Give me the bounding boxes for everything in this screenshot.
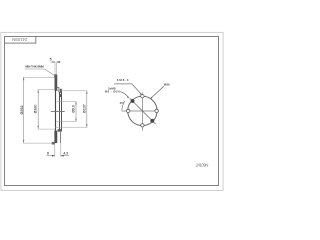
thickness arrow left [52, 61, 55, 63]
right dim arrows [86, 91, 88, 94]
mini arrow mark lower [60, 94, 62, 97]
OD dim line [23, 77, 25, 143]
hole top [141, 95, 144, 98]
svg-text:5: 5 [50, 57, 52, 61]
dim2 line [37, 90, 39, 129]
thickness dim line right [57, 61, 61, 63]
hole bottom [141, 124, 144, 127]
leader top horizontal [114, 83, 132, 85]
svg-text:Ø252: Ø252 [20, 105, 24, 114]
svg-text:MIN THK 8MM: MIN THK 8MM [25, 65, 44, 69]
bottom dim arrow right [61, 155, 64, 157]
svg-text:4.3: 4.3 [63, 152, 68, 156]
filled hole upper-left [131, 99, 135, 103]
diagonal centerline [130, 98, 156, 124]
horizontal centerline [122, 110, 159, 112]
OD dim arrows [23, 77, 25, 80]
svg-text:6M8.3: 6M8.3 [117, 78, 129, 82]
svg-text:Ø9.0: Ø9.0 [71, 105, 75, 113]
bottom dim ext right [60, 143, 62, 157]
drawing frame [5, 37, 219, 186]
note underline [25, 68, 45, 70]
OD ext top [23, 76, 55, 78]
leader O80 arrowhead [150, 97, 152, 99]
centerline [51, 110, 65, 112]
bottom dim line left [47, 155, 55, 157]
bottom lip [52, 142, 55, 145]
inner dim line [75, 102, 77, 122]
dim2 ext bottom [38, 128, 56, 130]
OD ext bottom [23, 142, 52, 144]
hat step top horizontal [57, 87, 59, 89]
dim2 arrows [37, 90, 39, 93]
thickness dim line left [50, 61, 55, 63]
svg-text:24109N: 24109N [196, 162, 209, 167]
hole right [155, 109, 158, 112]
right ext top [57, 90, 87, 92]
angle arc [122, 101, 125, 110]
leader curved to filled hole [120, 92, 128, 98]
sheet outer edge [1, 32, 223, 190]
inner ext bottom [56, 120, 76, 122]
svg-text:Ø8→Ø20: Ø8→Ø20 [105, 90, 121, 94]
svg-text:Ø80: Ø80 [164, 83, 170, 87]
thickness arrow right [57, 61, 60, 63]
leader top arrowhead [140, 93, 142, 95]
hat wall inner [61, 92, 63, 130]
hat bottom vertical [60, 130, 62, 143]
svg-text:Ø137: Ø137 [83, 104, 87, 113]
top friction ring section [55, 75, 57, 90]
right dim line [86, 91, 88, 128]
title box [5, 37, 36, 44]
svg-text:24109N: 24109N [12, 37, 27, 42]
plate mid line [55, 91, 57, 132]
svg-text:8: 8 [47, 152, 49, 156]
leader top diagonal [132, 84, 142, 95]
bolt circle [128, 96, 157, 125]
bottom friction ring section [55, 131, 57, 143]
hat bottom cap [58, 129, 62, 131]
thickness ext line left [54, 62, 56, 75]
hat wall outer [59, 92, 61, 130]
hole left [127, 109, 130, 112]
inner ext top [57, 101, 77, 103]
bottom dim line right [61, 155, 69, 157]
filled hole lower-right [151, 119, 155, 123]
inner dim arrows [75, 102, 77, 105]
hat top cap [59, 91, 62, 93]
right ext bottom [55, 126, 87, 128]
bottom dim ext left [54, 145, 56, 157]
thickness ext line right [56, 62, 58, 75]
vertical centerline [141, 92, 143, 130]
leader arrow blob at plate top [54, 74, 57, 77]
note leader [45, 69, 56, 76]
hat step top vertical [58, 88, 60, 93]
leader arrowhead filled hole [127, 96, 129, 98]
mini arrow mark upper [60, 89, 62, 93]
dim2 ext top [38, 89, 55, 91]
svg-text:Ø160: Ø160 [33, 105, 37, 114]
bottom dim arrow left [52, 155, 55, 157]
leader O80 [151, 86, 164, 98]
